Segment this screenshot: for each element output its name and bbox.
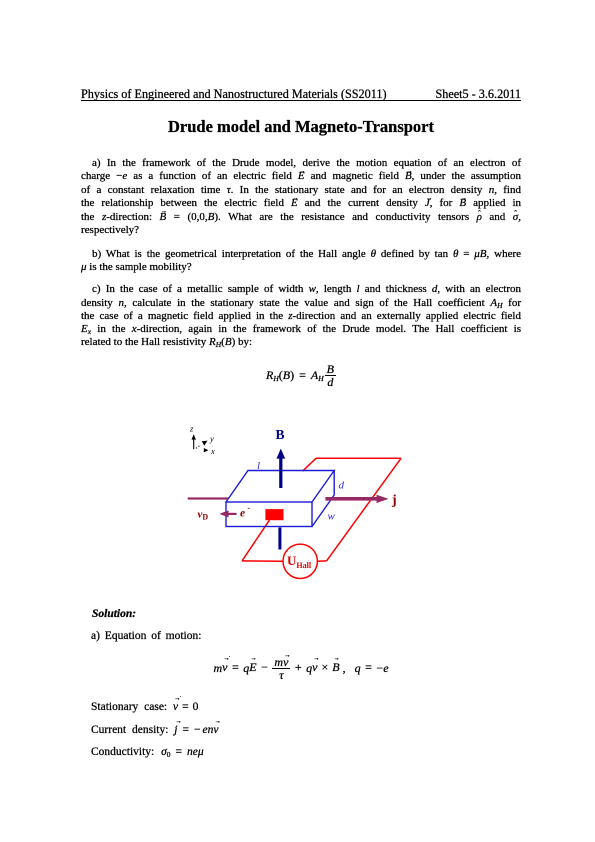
title: [81, 117, 521, 137]
svg-text:w: w: [328, 511, 336, 523]
svg-text:x: x: [210, 446, 215, 456]
svg-text:UHall: UHall: [287, 553, 312, 570]
svg-text:e: e: [240, 508, 245, 520]
svg-text:-: -: [248, 504, 251, 513]
svg-text:j: j: [391, 493, 397, 508]
paragraph b: [81, 248, 521, 261]
hall contact pad: [265, 509, 283, 520]
paragraph c: [81, 283, 521, 296]
svg-text:B: B: [276, 427, 285, 442]
svg-text:l: l: [257, 460, 260, 472]
bottom edge right of circle: [317, 560, 326, 562]
current lead wire left: [188, 497, 229, 499]
equation of motion: [81, 657, 521, 680]
sample box: [226, 471, 334, 527]
svg-text:z: z: [189, 424, 194, 434]
svg-text:y: y: [209, 434, 214, 444]
paragraph a: [81, 157, 521, 170]
bottom edge left of circle: [242, 560, 283, 562]
header left: [81, 87, 387, 102]
drift velocity vD arrow: [222, 513, 237, 515]
coordinate axes triad x y z: [192, 434, 209, 452]
Solution: [92, 608, 136, 620]
header rule: [81, 100, 521, 102]
current density j arrow: [325, 497, 377, 501]
B field line below sample: [278, 528, 281, 550]
equation RH: [81, 364, 521, 387]
svg-text:d: d: [339, 480, 345, 492]
svg-text:vD: vD: [198, 509, 209, 522]
magnetic field B arrow: [279, 458, 282, 488]
voltmeter U_Hall: [283, 544, 317, 578]
left slant (hidden behind box below): [303, 458, 317, 471]
header right: [81, 87, 521, 102]
hall voltage wire loop: [242, 458, 401, 561]
wire from contact to bottom-left corner: [242, 520, 269, 561]
right slant: [327, 458, 402, 561]
